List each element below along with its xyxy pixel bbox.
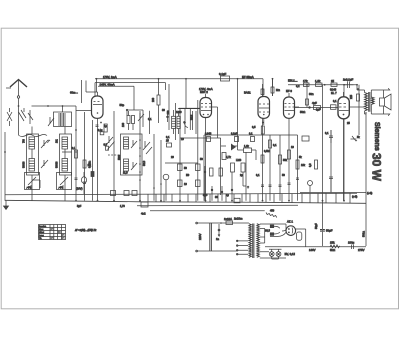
resistor above V3 [244, 84, 264, 95]
svg-text:30000: 30000 [24, 161, 26, 168]
svg-text:↗F3: ↗F3 [58, 186, 64, 190]
wire vertical x161 [160, 140, 162, 201]
svg-text:LMS: LMS [236, 159, 241, 162]
wire coil links [32, 127, 72, 201]
svg-text:2x10m: 2x10m [234, 217, 243, 221]
resistor R50 [178, 164, 188, 171]
svg-text:Kurz: Kurz [39, 228, 43, 231]
svg-text:700: 700 [24, 138, 26, 143]
svg-text:25: 25 [331, 79, 335, 83]
svg-text:450: 450 [270, 210, 275, 213]
output transformer [357, 85, 374, 114]
grid coupling C to V5 [295, 101, 338, 114]
svg-text:Mittel: Mittel [39, 231, 45, 234]
wave switch arrows [106, 136, 115, 150]
wire vertical x297.5 [297, 135, 299, 201]
wire vertical x175.6 [175, 103, 177, 140]
svg-text:0,1: 0,1 [273, 144, 277, 147]
wire grid link [98, 86, 143, 127]
svg-text:50k: 50k [283, 159, 288, 162]
trimmer C4 [138, 113, 144, 121]
capacitor x76 lower [75, 178, 78, 180]
wire B+ bus [5, 193, 357, 195]
svg-text:25: 25 [347, 122, 350, 125]
svg-text:ⅢV, 0,1Ⅱ: ⅢV, 0,1Ⅱ [285, 252, 296, 256]
svg-text:50: 50 [200, 158, 203, 161]
power transformer primary [234, 217, 259, 259]
wire heater bus B [150, 210, 265, 212]
svg-text:10: 10 [181, 138, 184, 141]
phono jack [308, 181, 313, 193]
antenna [6, 80, 27, 113]
wire vertical x280 [279, 135, 281, 201]
wire vertical x307 [306, 85, 308, 108]
plate wire V5 [349, 106, 364, 108]
node dots row1 [4, 105, 77, 153]
top bus dots [96, 78, 358, 86]
resistor 1.8k [315, 79, 322, 87]
resistor on AGC column [72, 147, 78, 158]
transformer secondary taps [260, 224, 286, 258]
ground main [4, 201, 9, 210]
svg-text:50μF: 50μF [315, 223, 318, 229]
svg-text:↗F3: ↗F3 [26, 186, 32, 190]
wire vertical x81.5 [81, 80, 83, 103]
wire vertical x359 [358, 85, 360, 135]
switch F3 right [57, 173, 72, 190]
wire vertical x204 [203, 135, 205, 201]
capacitor 2x01 [343, 77, 354, 88]
svg-text:30 W: 30 W [370, 153, 384, 182]
resistor R201 [132, 116, 135, 131]
resistor R25 [166, 140, 172, 148]
tube V5 EL12 [330, 88, 349, 201]
resistor 220 [350, 88, 360, 101]
components above V5 row: resistor 17k [303, 79, 309, 87]
resistor mid bus [234, 198, 240, 203]
wire antenna down [18, 112, 20, 136]
fuse [220, 217, 232, 225]
right mid capacitor [325, 130, 333, 143]
resistor row above bus 2 [124, 191, 129, 196]
capacitor 0,1u left [98, 129, 104, 135]
svg-text:10k: 10k [301, 164, 306, 167]
IF transformer T1 coils [167, 110, 180, 134]
svg-text:101: 101 [57, 138, 59, 143]
svg-text:5k: 5k [357, 136, 360, 139]
svg-text:4μF: 4μF [312, 101, 317, 105]
svg-text:1μF: 1μF [316, 109, 321, 112]
tube V1 ECH [70, 81, 103, 201]
capacitor 5n mains [216, 224, 220, 241]
svg-text:11,3: 11,3 [123, 172, 128, 175]
RF coil box 2 [60, 134, 72, 175]
svg-text:200: 200 [152, 97, 155, 102]
svg-text:0,1: 0,1 [166, 136, 170, 139]
capacitor x84 lower [83, 182, 86, 184]
coil L2 [29, 137, 35, 149]
resistor on HT bus [219, 72, 230, 81]
filter cap 50uF [320, 229, 333, 233]
wire vertical x366 [365, 112, 367, 246]
capacitor blob C8 [183, 108, 188, 134]
components column x270 [269, 140, 278, 187]
band switch contacts left [7, 108, 33, 126]
cap 100uF [348, 241, 355, 250]
svg-text:1n: 1n [216, 237, 220, 241]
svg-text:1000: 1000 [176, 111, 182, 114]
svg-text:1μ: 1μ [226, 194, 229, 197]
svg-text:1,8k: 1,8k [315, 79, 321, 83]
RF coil box 1 [27, 134, 39, 175]
wire +5 line [300, 192, 366, 194]
wire left vertical [4, 132, 6, 201]
svg-text:50p: 50p [120, 103, 125, 107]
svg-text:0,1: 0,1 [72, 147, 76, 150]
svg-text:3016: 3016 [144, 160, 146, 166]
IF coil L7 [124, 159, 129, 171]
components column x280 [279, 155, 288, 187]
svg-text:4,7k: 4,7k [226, 156, 231, 159]
pilot lamps [269, 249, 295, 259]
wire dial cord [19, 134, 47, 136]
coil L3 [29, 159, 35, 172]
svg-text:AZ 1: AZ 1 [287, 220, 293, 224]
svg-text:Siemens: Siemens [373, 122, 380, 151]
oscillator section [204, 144, 256, 201]
svg-text:(+S): (+S) [352, 195, 357, 199]
resistor row above bus 1 [111, 191, 116, 196]
svg-text:275V: 275V [358, 248, 365, 252]
wire vertical x154 [153, 134, 155, 201]
svg-text:0,1: 0,1 [333, 100, 337, 103]
heater resistors AZ1 [265, 224, 286, 235]
cathode components V1 [96, 122, 108, 132]
components column x289 [288, 150, 291, 185]
tube V3 EB [258, 88, 270, 125]
jack socket [163, 174, 169, 201]
wire vertical x140 [139, 111, 141, 201]
wire vertical x270 [269, 135, 271, 201]
svg-text:10: 10 [184, 183, 187, 186]
wire vertical x262.5 [262, 118, 264, 200]
svg-text:170V, 1mA: 170V, 1mA [103, 75, 117, 79]
field coil resistor [330, 241, 340, 253]
wire vertical x220.6 [220, 138, 222, 195]
wire detector line [180, 137, 221, 139]
svg-text:EBL1…: EBL1… [288, 79, 298, 83]
wire 140V line [265, 246, 366, 248]
resistor on heater bus [141, 202, 148, 216]
svg-text:Δf = ±(88)…(175) Hz: Δf = ±(88)…(175) Hz [74, 230, 97, 232]
trimmer C2 [41, 160, 48, 168]
rectifier output loop [270, 229, 306, 247]
svg-text:1,76: 1,76 [120, 205, 125, 208]
cap right mid2 [329, 177, 333, 193]
coil L5 [62, 159, 68, 172]
svg-text:EF 85mA: EF 85mA [242, 75, 254, 79]
measurement table [39, 225, 66, 241]
svg-text:3016: 3016 [192, 114, 194, 120]
svg-text:EBF 2: EBF 2 [200, 90, 208, 94]
svg-text:1,2k: 1,2k [244, 145, 249, 148]
wire vertical x331 [330, 130, 332, 193]
wire grid stub [148, 111, 150, 134]
svg-text:98,5: 98,5 [265, 230, 270, 233]
resistor row above bus 3 [132, 191, 137, 196]
svg-text:17k: 17k [303, 79, 308, 83]
svg-text:103: 103 [122, 122, 125, 127]
switch F3 left [25, 173, 40, 190]
svg-text:5μF: 5μF [77, 205, 82, 208]
wire vertical x289 [288, 118, 290, 200]
trimmer C1 [41, 140, 50, 148]
wire vertical x246 [245, 152, 247, 201]
band filter box [121, 134, 143, 175]
svg-text:5000: 5000 [119, 154, 121, 160]
resistor small left [106, 146, 109, 150]
svg-text:225: 225 [350, 94, 353, 99]
svg-text:4x2: 4x2 [141, 212, 146, 216]
wire vertical x237.5 [237, 79, 239, 150]
svg-text:0,1μF: 0,1μF [231, 133, 238, 136]
trimmer C7 [131, 162, 137, 170]
mains input [196, 222, 249, 252]
trimmer C3 [48, 117, 54, 126]
svg-text:5kΩ: 5kΩ [330, 248, 335, 252]
svg-text:1x10A: 1x10A [224, 217, 232, 221]
svg-text:Bereich: Bereich [39, 225, 47, 228]
svg-text:0,3: 0,3 [309, 163, 312, 167]
tube V4 EF9 [272, 86, 299, 119]
capacitor 50pF [120, 103, 129, 116]
transformer primary taps [236, 240, 248, 255]
dot on bus [324, 84, 326, 86]
svg-text:10: 10 [291, 146, 294, 149]
svg-text:100μ: 100μ [348, 241, 355, 245]
resistor R51 [196, 164, 201, 171]
svg-text:50: 50 [282, 174, 285, 177]
resistor 0.3 [309, 160, 318, 169]
svg-text:1M: 1M [88, 164, 91, 167]
svg-text:BA11: BA11 [244, 91, 251, 95]
chassis bus dots [75, 200, 345, 202]
resistor R200 [152, 79, 160, 123]
resistor on x84 column [83, 160, 91, 168]
resistor below bus x307 [306, 84, 309, 105]
svg-text:0,1μF: 0,1μF [219, 72, 226, 76]
svg-text:Ⅲ0: Ⅲ0 [186, 174, 190, 177]
trimmer C6 [131, 140, 137, 148]
svg-text:50: 50 [184, 167, 187, 170]
svg-text:EF 9: EF 9 [286, 89, 292, 93]
svg-text:0,048: 0,048 [205, 133, 212, 136]
svg-text:5k: 5k [299, 156, 302, 159]
wire switch to coupler [32, 105, 77, 107]
wire output stage bus [288, 84, 357, 86]
svg-text:220V: 220V [198, 233, 202, 240]
svg-text:25: 25 [166, 140, 169, 143]
svg-text:80000: 80000 [57, 161, 59, 168]
svg-text:0,5: 0,5 [252, 126, 256, 129]
svg-text:30Ω: 30Ω [309, 93, 314, 96]
svg-text:15k: 15k [330, 241, 335, 245]
resistor 25b [331, 79, 337, 87]
wire heater bus A [137, 204, 298, 207]
resistor R11 [196, 180, 201, 187]
svg-text:140V: 140V [309, 248, 316, 252]
label MOhm [271, 79, 280, 96]
switch S1 [143, 141, 152, 154]
svg-text:MΩ: MΩ [276, 89, 280, 92]
svg-text:20: 20 [171, 156, 174, 159]
wire IF top link [179, 108, 200, 134]
wire vertical x344 [343, 85, 345, 201]
rectifier tube AZ1 [286, 220, 296, 236]
capacitor C5 [166, 112, 168, 122]
svg-text:0,1: 0,1 [249, 133, 253, 136]
grid leak column [89, 120, 95, 201]
wire vertical x186 [185, 79, 187, 109]
components column x297 [296, 160, 306, 180]
volume pot [351, 136, 361, 141]
svg-text:(+S): (+S) [367, 191, 372, 195]
dropper resistor diagonal [266, 210, 277, 218]
cathode resistor V3 [261, 122, 264, 134]
svg-text:50Ω: 50Ω [300, 110, 305, 114]
wire chassis bus [5, 200, 366, 203]
svg-text:EL 7: EL 7 [331, 91, 337, 95]
wire top HT bus [95, 79, 263, 96]
wire vertical x322.5 [322, 85, 324, 246]
coil L4 [62, 137, 68, 149]
svg-text:2x0,1μF: 2x0,1μF [343, 77, 353, 81]
svg-text:(2AV): (2AV) [76, 187, 83, 191]
wire vertical x84.5 [84, 112, 86, 201]
svg-text:500Ω: 500Ω [363, 231, 366, 237]
svg-text:30: 30 [162, 109, 165, 112]
IF coil L6 [124, 137, 129, 149]
mechanical link dashed [108, 154, 121, 156]
wire AVC line [204, 134, 298, 136]
svg-text:60m→: 60m→ [70, 91, 78, 95]
svg-text:⇧: ⇧ [247, 185, 249, 189]
svg-text:0,2: 0,2 [296, 85, 300, 88]
svg-text:0,1: 0,1 [148, 118, 152, 121]
svg-text:50μF: 50μF [326, 229, 333, 233]
wire vertical x180 [179, 109, 181, 201]
AVC row capacitors [205, 133, 255, 142]
tube V2 EBF [198, 94, 218, 202]
wire vertical x197.8 [197, 100, 199, 201]
antenna coupling coil L1 [54, 112, 72, 127]
heater ticks on bus [140, 193, 350, 203]
wire y163 [165, 162, 198, 164]
small box right [302, 136, 309, 141]
svg-text:5μF: 5μF [203, 194, 208, 197]
wire vertical x114 [113, 111, 115, 201]
detector components column x262 [261, 155, 264, 187]
wire screen feed [95, 83, 166, 96]
svg-text:0,1: 0,1 [256, 174, 260, 177]
wire vertical x169 [168, 84, 170, 130]
resistor R10 [178, 180, 188, 187]
wire coupling coil stub [62, 106, 64, 112]
wire amp in line [178, 108, 198, 110]
wire vertical x76 [75, 106, 77, 201]
resistor R103 [122, 111, 130, 130]
lamp 24V [76, 172, 87, 194]
svg-text:0,5M: 0,5M [264, 150, 270, 153]
junction dots column [139, 139, 162, 189]
svg-text:0,1μ: 0,1μ [98, 129, 103, 132]
svg-text:0,1: 0,1 [325, 132, 329, 135]
wire vertical x272.5 [272, 79, 274, 96]
svg-text:100: 100 [167, 110, 170, 115]
speaker [371, 88, 391, 116]
